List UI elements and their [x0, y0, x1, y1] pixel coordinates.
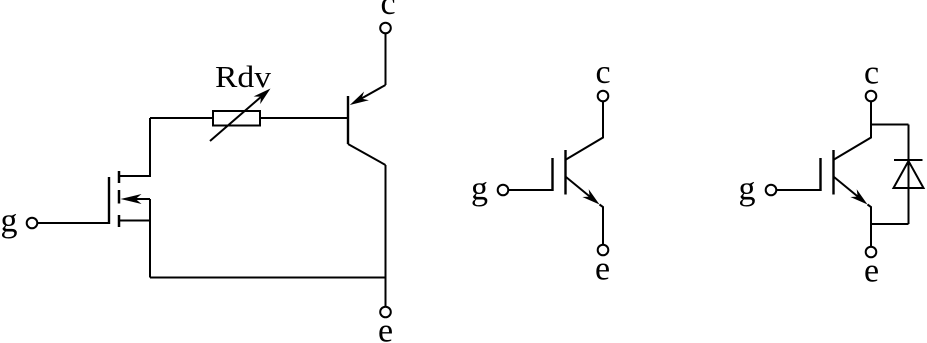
transistor Q2 base bar: [347, 96, 349, 144]
svg-text:c: c: [595, 54, 610, 91]
IGBT U1 collector lead: [566, 102, 603, 160]
wire diode branch vertical: [908, 125, 910, 225]
MOSFET Q1 channel segment source: [118, 215, 121, 227]
svg-text:e: e: [595, 251, 610, 288]
diode D1 cathode bar: [894, 159, 923, 161]
terminal g (right IGBT): [739, 171, 777, 208]
wire collector terminal lead: [385, 34, 387, 85]
IGBT U2 gate bar: [819, 158, 821, 191]
MOSFET Q1 body arrow: [121, 194, 151, 204]
wire gate lead (right): [777, 189, 821, 191]
MOSFET Q1 channel segment body: [118, 190, 121, 204]
wire gate lead (middle): [509, 189, 553, 191]
diode D1 triangle: [894, 161, 924, 188]
wire gate lead (left): [38, 222, 108, 224]
terminal c (middle IGBT): [595, 54, 610, 101]
wire source riser: [149, 199, 151, 278]
terminal c (right IGBT): [864, 55, 879, 102]
wire top rail right: [260, 117, 348, 119]
svg-text:c: c: [380, 0, 395, 22]
terminal c (left circuit): [380, 0, 395, 33]
svg-text:e: e: [864, 253, 879, 290]
wire bottom rail: [150, 277, 386, 279]
IGBT U2 emitter lead with arrow: [834, 177, 871, 247]
IGBT U2 collector lead: [834, 102, 871, 160]
terminal e (middle IGBT): [595, 245, 610, 288]
svg-text:c: c: [864, 55, 879, 92]
terminal e (left circuit): [378, 307, 393, 343]
MOSFET Q1 gate bar: [108, 177, 110, 224]
wire source: [119, 220, 150, 222]
wire collector riser: [385, 165, 387, 306]
svg-text:g: g: [471, 171, 488, 208]
wire top rail left: [150, 117, 213, 119]
svg-text:g: g: [1, 203, 18, 240]
IGBT U1 gate bar: [551, 158, 553, 191]
IGBT U2 channel bar: [832, 150, 834, 195]
svg-text:e: e: [378, 313, 393, 343]
resistor Rdv body: [213, 111, 260, 126]
transistor Q2 emitter lead with arrow: [350, 85, 386, 105]
terminal g (left circuit): [1, 203, 38, 240]
transistor Q2 collector lead: [348, 144, 386, 165]
wire diode branch bottom: [871, 223, 909, 225]
IGBT U1 channel bar: [564, 150, 566, 195]
wire diode branch top: [871, 124, 909, 126]
MOSFET Q1 channel segment drain: [118, 171, 121, 183]
svg-text:Rdv: Rdv: [215, 59, 272, 94]
resistor Rdv variable arrow: [210, 89, 271, 142]
terminal e (right IGBT): [864, 247, 879, 290]
IGBT U1 emitter lead with arrow: [566, 177, 603, 245]
terminal g (middle IGBT): [471, 171, 508, 208]
wire drain: [119, 118, 150, 176]
svg-text:g: g: [739, 171, 756, 208]
